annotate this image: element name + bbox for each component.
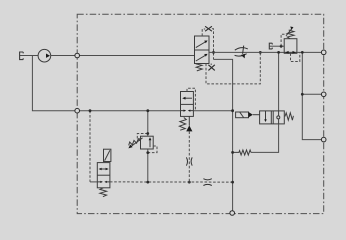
wire: branch down from inlet line [32, 56, 180, 111]
port: right middle on boundary [321, 92, 326, 97]
spring of V5 (left, adjustable) [129, 139, 141, 146]
solenoid cartridge valve V6 (right middle, 2-position) [260, 111, 285, 124]
wire: branch down from V2 outlet [302, 52, 323, 139]
wire: tank line from pilot column down right [214, 59, 233, 213]
spring of V4 (below) [100, 188, 107, 197]
port: left lower port on boundary [75, 108, 80, 113]
wire: pump to main valve [51, 55, 195, 57]
pilot wire: V5 right drain loop [148, 146, 157, 153]
enclosure border (manifold boundary) [77, 14, 324, 213]
port: left upper port on boundary [75, 53, 80, 58]
spring of valve V1 [196, 64, 203, 71]
port: right upper on boundary [321, 50, 326, 55]
plugged port X above V1 [202, 29, 205, 36]
wire: V6 bottom to restrictor [251, 124, 279, 152]
pilot wire: X to main line [212, 29, 214, 60]
orifice O1 on vertical pilot line [186, 157, 192, 165]
solenoid of V4 [104, 149, 111, 161]
wire: branch to middle right port [302, 93, 323, 95]
spring of V2 (adjustable, on top) [287, 30, 294, 39]
main pressure compensator valve V1 (top, 2-position) [195, 36, 210, 64]
pilot cap wire over V3 [187, 88, 195, 110]
pilot wire: V2 spring side [281, 34, 286, 46]
drain wire: V4 to right (dashed) [110, 181, 233, 183]
orifice O2 on horizontal drain line [203, 179, 211, 186]
wire: main line V1 to reducing valve [209, 51, 284, 53]
restrictor R1 (zigzag) [233, 150, 251, 155]
plug E (test point at V2 inlet) [269, 43, 272, 49]
pressure reducing valve V2 (top right) [284, 39, 297, 54]
pilot-operated valve V3 (center, 2-position) [181, 92, 194, 117]
pump (energy source circle) [38, 49, 51, 62]
solenoid valve V4 (lower left, 2-position) [97, 163, 110, 188]
wire: V2 outlet to port [297, 51, 324, 53]
wire: supply branch down to 2/2 valve [278, 52, 280, 111]
pilot wire: V5 left pilot [137, 134, 148, 139]
hydraulic pilot triangle under V3 [188, 116, 190, 125]
pilot wire: V2 downstream loop [291, 53, 300, 62]
variable orifice FC1 on main line [235, 46, 248, 57]
port: right lower on boundary [321, 137, 326, 142]
wire: pump inlet line from plug to pump [20, 55, 38, 57]
wire: V5 outlet down to drain line [147, 149, 149, 182]
wire: plug to V2 [270, 45, 285, 47]
plugged port X below V1 [210, 64, 212, 66]
pilot wire: V3 pilot down through orifice [188, 131, 190, 182]
spring of V3 [179, 118, 186, 131]
solenoid of V6 [236, 112, 249, 118]
pilot wire: below V1 down and right up to main line [206, 52, 260, 84]
port: bottom on boundary [230, 211, 235, 216]
node on main line at x=213.5 [212, 51, 215, 54]
pilot triangle of V6 [249, 112, 253, 117]
pilot wire: main line down to V4 [89, 111, 91, 182]
plug P (left test connection) [20, 52, 24, 60]
wire: lower main line through V3 to tank column [193, 110, 232, 112]
spring of V6 (right) [285, 113, 294, 120]
relief valve V5 (middle left) [147, 111, 149, 137]
